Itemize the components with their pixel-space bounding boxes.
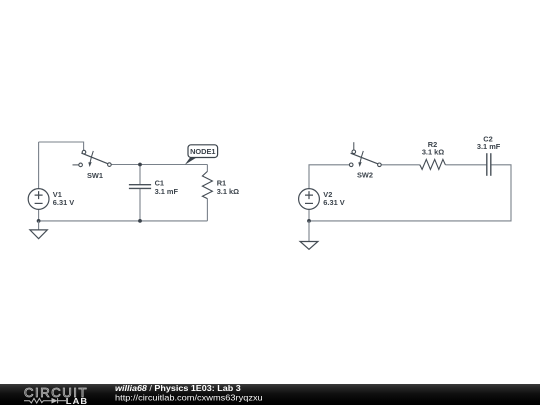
label V2 value: [323, 190, 344, 207]
label V1 value: [53, 190, 74, 207]
SW2 right terminal: [378, 163, 382, 167]
capacitor C1: [129, 185, 151, 189]
SW1 top terminal: [82, 150, 86, 154]
switch SW2: [349, 142, 381, 167]
voltage source V1: [28, 189, 49, 210]
svg-text:SW2: SW2: [357, 171, 373, 180]
SW2 left terminal: [349, 163, 353, 167]
label C2 value: [477, 135, 501, 152]
junction: C1 bottom node: [138, 219, 142, 223]
label R1 value: [217, 179, 239, 197]
SW1 left terminal: [79, 163, 83, 167]
ground (left): [30, 221, 47, 239]
svg-text:3.1 mF: 3.1 mF: [477, 142, 501, 151]
voltage source V2: [299, 189, 320, 210]
SW1 blade (top terminal to right terminal): [81, 153, 107, 164]
SW2 blade (top terminal to right terminal): [351, 153, 378, 164]
svg-text:http://circuitlab.com/cxwms63r: http://circuitlab.com/cxwms63ryqzxu: [115, 393, 263, 403]
wire: top rail to SW1: [39, 142, 84, 150]
wire: SW1 right terminal to R1 top corner: [111, 164, 207, 166]
wire: V1 bottom lead: [38, 210, 40, 221]
wire: V2 bottom lead: [308, 210, 310, 221]
wire: bottom rail of left circuit: [39, 220, 208, 222]
resistor R2: [420, 159, 446, 169]
svg-text:LAB: LAB: [66, 396, 88, 405]
svg-text:6.31 V: 6.31 V: [53, 198, 74, 207]
junction: V1 bottom node: [37, 219, 41, 223]
SW1 actuation arrow: [90, 151, 93, 163]
SW1 open-throw stub: [73, 164, 79, 166]
wire: V2 top lead and rail to SW2: [309, 165, 349, 189]
node NODE1 callout: [185, 145, 218, 165]
wire: R1 bottom lead: [206, 199, 208, 221]
svg-text:3.1 kΩ: 3.1 kΩ: [422, 147, 444, 156]
SW1 right terminal: [108, 163, 112, 167]
wire: C2 right plate to right rail and bottom rail: [309, 165, 511, 221]
resistor R1: [202, 171, 212, 198]
wire: SW2 right terminal to R2: [381, 164, 420, 166]
switch SW1: [73, 150, 112, 167]
wire: C1 bottom lead: [139, 189, 141, 221]
label R2 value: [422, 140, 444, 157]
wire: R1 top lead: [206, 165, 208, 172]
ground (right): [300, 221, 318, 249]
svg-text:3.1 mF: 3.1 mF: [155, 187, 179, 196]
logo resistor-diode motif: [24, 398, 66, 403]
svg-text:6.31 V: 6.31 V: [323, 198, 344, 207]
wire: R2 to C2 left plate: [445, 164, 486, 166]
junction: V2 bottom node: [307, 219, 311, 223]
wire: V1 top lead up left side: [38, 142, 40, 189]
capacitor C2: [487, 153, 491, 176]
junction: SW1/C1 top node: [138, 163, 142, 167]
SW2 open-throw stub (up): [353, 142, 355, 150]
SW2 actuation arrow: [360, 151, 363, 163]
wire: C1 top lead: [139, 165, 141, 185]
svg-text:NODE1: NODE1: [190, 147, 215, 156]
svg-text:3.1 kΩ: 3.1 kΩ: [217, 187, 239, 196]
svg-text:SW1: SW1: [87, 171, 103, 180]
SW2 top terminal: [352, 150, 356, 154]
label C1 value: [155, 179, 179, 197]
